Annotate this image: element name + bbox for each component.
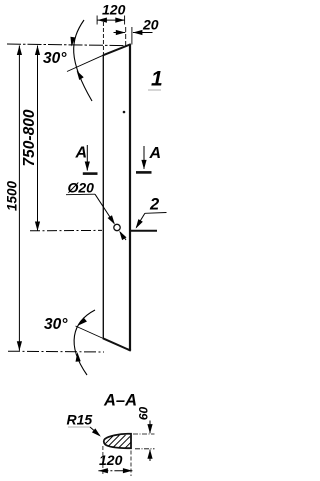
wire: dashed extension from 120 dim to top-left corner xyxy=(102,22,104,54)
wire: 60 extension line bottom dash-dot xyxy=(135,448,155,450)
label 2 leader xyxy=(145,212,167,215)
svg-text:A: A xyxy=(75,145,88,162)
stake body part 1: right edge xyxy=(129,44,131,351)
svg-text:750-800: 750-800 xyxy=(21,109,38,166)
wire: mid dashed line at hole level xyxy=(30,229,102,231)
R15 leader arrow xyxy=(90,427,100,435)
svg-text:120: 120 xyxy=(102,2,126,18)
wire: extension line right dashed xyxy=(130,451,132,477)
wire: top extension baseline xyxy=(7,44,126,46)
hole leader line upper xyxy=(95,194,114,223)
svg-text:Ø20: Ø20 xyxy=(68,180,95,196)
svg-text:30°: 30° xyxy=(43,50,67,67)
wire: extension line left dashed xyxy=(102,446,104,476)
svg-text:1: 1 xyxy=(151,68,163,91)
svg-text:60: 60 xyxy=(137,407,151,421)
stake body part 1: left edge xyxy=(102,55,104,339)
wire: 60 extension line top dash-dot xyxy=(133,433,155,435)
hole leader line lower xyxy=(120,232,126,240)
wire: extension line 20-left xyxy=(125,27,127,47)
svg-text:1500: 1500 xyxy=(5,180,20,211)
wire: bottom baseline dash-dot xyxy=(8,350,104,353)
dimension 750-800 line xyxy=(37,46,39,232)
section A-A profile outline xyxy=(104,434,131,448)
angle 30 deg (bottom) arc xyxy=(74,310,95,375)
svg-text:A: A xyxy=(149,145,162,162)
60 dim arrows xyxy=(149,421,151,434)
blemish dot on part xyxy=(123,111,126,114)
angle 30 deg (top) arc xyxy=(74,20,92,101)
svg-text:2: 2 xyxy=(149,196,159,214)
dimension 1500 line xyxy=(18,46,20,351)
stake body part 1: bottom bevel edge xyxy=(103,338,131,350)
wire: bottom bevel thin extension line xyxy=(76,326,104,339)
pin part 2 line xyxy=(130,230,157,232)
svg-text:20: 20 xyxy=(142,17,159,33)
svg-text:R15: R15 xyxy=(67,412,93,428)
section hatching xyxy=(106,435,131,448)
wire: top bevel thin extension line xyxy=(67,55,103,71)
stake body part 1: top bevel edge xyxy=(103,44,131,55)
hole circle xyxy=(114,224,120,230)
wire: extension line 20-right xyxy=(131,27,133,45)
svg-text:A–A: A–A xyxy=(103,392,137,410)
svg-text:30°: 30° xyxy=(44,316,68,333)
